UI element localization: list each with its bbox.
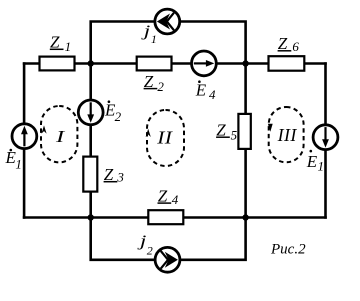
svg-text:1: 1 — [65, 39, 72, 54]
loop II contour — [146, 110, 184, 166]
label J1 — [140, 22, 157, 46]
label Z2 — [144, 72, 165, 94]
wire: J1 top branch — [91, 22, 246, 64]
EMF source E4 — [192, 51, 217, 76]
svg-text:2: 2 — [115, 109, 122, 124]
label Z6 — [278, 34, 300, 54]
svg-text:1: 1 — [318, 159, 325, 174]
svg-text:2: 2 — [147, 243, 153, 257]
svg-text:j: j — [136, 232, 146, 250]
current source J2 — [155, 247, 180, 272]
node: junction top-right — [242, 60, 248, 66]
label J2 — [136, 232, 152, 257]
resistor Z2 — [137, 57, 172, 71]
label E1 (left) — [5, 148, 22, 172]
label Z3 — [104, 165, 125, 185]
wire: top horizontal — [23, 62, 327, 65]
wire: center-right vertical — [244, 64, 247, 218]
EMF source E1 (right) — [313, 125, 338, 150]
svg-text:I: I — [55, 127, 65, 146]
svg-text:E: E — [306, 152, 318, 171]
resistor Z5 — [238, 114, 250, 149]
resistor Z1 — [40, 57, 75, 71]
label Z1 — [50, 33, 71, 55]
node: junction top-left — [88, 60, 94, 66]
label E4 — [195, 80, 216, 102]
svg-text:E: E — [195, 81, 207, 100]
svg-text:4: 4 — [209, 87, 216, 102]
svg-text:II: II — [156, 128, 173, 148]
wire: left rail — [23, 62, 26, 219]
resistor Z6 — [269, 56, 305, 70]
svg-text:j: j — [140, 22, 150, 40]
label Z5 — [216, 120, 238, 142]
svg-text:Рис.2: Рис.2 — [270, 242, 306, 258]
node: junction bottom-right — [242, 214, 248, 220]
EMF source E2 — [78, 100, 103, 125]
resistor Z4 — [148, 210, 183, 224]
svg-text:1: 1 — [151, 32, 157, 46]
loop III contour — [268, 107, 304, 162]
current source J1 — [155, 9, 180, 34]
svg-text:4: 4 — [172, 192, 179, 207]
svg-text:1: 1 — [15, 157, 22, 172]
wire: center-left vertical — [89, 64, 92, 218]
svg-text:III: III — [277, 125, 298, 145]
label Z4 — [158, 186, 179, 207]
resistor Z3 — [83, 157, 97, 192]
loop I contour — [41, 106, 77, 162]
wire: right rail — [324, 62, 327, 219]
node: junction bottom-left — [88, 214, 94, 220]
svg-text:3: 3 — [116, 170, 124, 185]
EMF source E1 (left) — [12, 124, 37, 149]
label E1 (right) — [306, 150, 324, 174]
wire: bottom horizontal — [23, 216, 327, 219]
svg-text:2: 2 — [157, 79, 164, 94]
wire: J2 bottom branch — [91, 218, 246, 260]
svg-text:5: 5 — [231, 128, 238, 143]
label E2 — [104, 100, 122, 123]
svg-text:6: 6 — [292, 39, 299, 54]
